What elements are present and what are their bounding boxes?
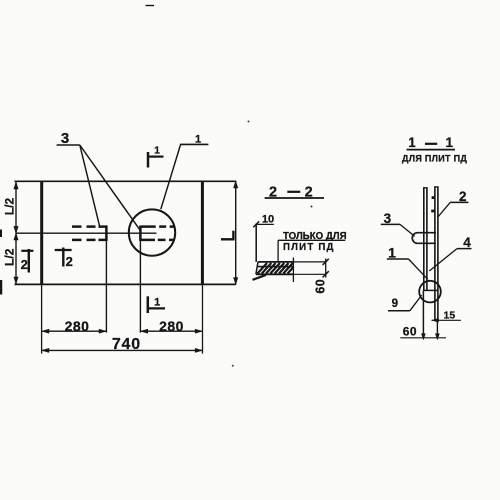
svg-text:60: 60 <box>314 279 328 294</box>
svg-text:15: 15 <box>444 309 456 321</box>
svg-text:2: 2 <box>269 185 277 201</box>
svg-text:3: 3 <box>384 211 392 226</box>
svg-text:2: 2 <box>305 185 313 201</box>
svg-text:ТОЛЬКО ДЛЯ: ТОЛЬКО ДЛЯ <box>283 231 347 242</box>
svg-text:1: 1 <box>408 135 416 150</box>
svg-text:740: 740 <box>112 336 141 353</box>
svg-text:L/2: L/2 <box>2 198 16 216</box>
svg-text:ДЛЯ ПЛИТ ПД: ДЛЯ ПЛИТ ПД <box>402 153 467 163</box>
svg-text:9: 9 <box>392 298 398 310</box>
svg-text:280: 280 <box>159 318 184 334</box>
svg-text:L/2: L/2 <box>2 248 16 266</box>
svg-text:280: 280 <box>65 318 90 334</box>
svg-text:2: 2 <box>66 254 73 269</box>
svg-text:1: 1 <box>154 296 160 308</box>
svg-text:60: 60 <box>403 325 417 339</box>
svg-text:3: 3 <box>61 130 69 147</box>
svg-text:1: 1 <box>195 134 201 146</box>
svg-text:10: 10 <box>262 214 274 226</box>
svg-text:ПЛИТ ПД: ПЛИТ ПД <box>283 242 335 253</box>
svg-text:1: 1 <box>154 145 160 157</box>
svg-text:4: 4 <box>463 235 471 250</box>
svg-text:1: 1 <box>388 245 396 261</box>
svg-text:2: 2 <box>21 257 28 272</box>
svg-text:2: 2 <box>459 189 467 204</box>
svg-text:1: 1 <box>446 135 454 150</box>
